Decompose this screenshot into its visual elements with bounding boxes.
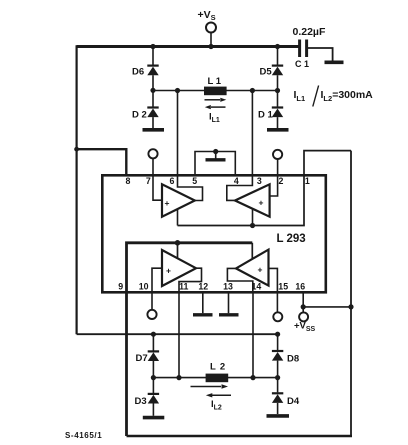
ground (D2) — [143, 128, 165, 132]
diode D7 — [152, 334, 154, 350]
svg-text:D8: D8 — [287, 354, 299, 365]
svg-text:5: 5 — [192, 176, 197, 186]
wire +Vs top rail — [77, 45, 299, 48]
svg-text:L 293: L 293 — [277, 233, 306, 245]
svg-text:IL2=300mA: IL2=300mA — [321, 89, 374, 103]
svg-text:6: 6 — [170, 176, 175, 186]
ground (D3) — [143, 416, 165, 420]
node junction L1row/pin6 wire — [175, 88, 180, 93]
svg-text:9: 9 — [118, 282, 123, 292]
ground (D4) — [267, 414, 290, 418]
wire pin11 to L2 — [178, 291, 180, 378]
node +Vss terminal — [299, 312, 308, 321]
wire pin1 enable to Vss bus — [304, 151, 351, 176]
current arrow I_L2 right — [191, 386, 222, 388]
wire pin16 to +Vss — [302, 291, 304, 312]
current arrow I_L1 left — [211, 106, 226, 108]
svg-text:D7: D7 — [136, 353, 148, 364]
node pin15 input terminal — [276, 291, 278, 312]
wire L2 row — [153, 377, 277, 379]
svg-text:D3: D3 — [135, 396, 147, 407]
svg-text:+VS: +VS — [198, 9, 216, 22]
wire L1 row — [153, 90, 278, 92]
wire bottom Vss bus — [127, 435, 353, 438]
svg-text:+: + — [165, 198, 170, 208]
wire right Vss bus — [350, 151, 352, 436]
node pin10 input terminal — [151, 291, 153, 310]
svg-text:D 1: D 1 — [258, 110, 274, 121]
node junction D5/D1/L1 — [275, 88, 280, 93]
node +Vs terminal — [206, 23, 216, 33]
wire D5 cathode to rail — [277, 47, 279, 65]
svg-text:8: 8 — [126, 176, 131, 186]
op-amp U2 (ch1, pins 2,3) — [270, 175, 278, 196]
wire pins 4,5 ground loop — [195, 152, 235, 177]
node junction D7/D3/L2 — [151, 375, 156, 380]
op-amp U3 (ch3, pins 10,11) — [152, 268, 162, 291]
svg-text:+VSS: +VSS — [294, 321, 316, 334]
svg-text:L 1: L 1 — [208, 76, 222, 87]
svg-text:12: 12 — [198, 282, 208, 292]
wire pin8 supply — [77, 149, 127, 176]
ground (pins 4,5) — [206, 158, 226, 161]
ground (pin13) — [228, 291, 230, 313]
ground (pin12) — [202, 291, 204, 313]
svg-text:1: 1 — [305, 176, 310, 186]
diode D3 — [152, 378, 154, 393]
ground (C1) — [325, 60, 344, 64]
wire L1 right to pin3 — [251, 91, 253, 177]
svg-text:0.22µF: 0.22µF — [293, 26, 326, 38]
svg-text:L 2: L 2 — [210, 362, 226, 373]
inductor L2 — [206, 374, 229, 383]
wire left +Vs bus — [75, 45, 77, 334]
svg-text:11: 11 — [179, 282, 188, 292]
node junction rail/D6 — [150, 44, 155, 49]
ground (D1) — [267, 128, 289, 132]
svg-text:IL1: IL1 — [294, 89, 306, 103]
wire enable EN1 (pin1) — [178, 176, 305, 226]
svg-text:14: 14 — [252, 282, 262, 292]
node pin7 input terminal — [148, 149, 157, 158]
svg-text:4: 4 — [234, 176, 239, 186]
svg-text:D 2: D 2 — [132, 110, 147, 121]
wire C1 to ground — [308, 48, 333, 61]
svg-text:D6: D6 — [132, 67, 144, 78]
capacitor C1 — [298, 40, 301, 58]
svg-text:+: + — [259, 198, 264, 208]
op-amp U4 (ch4, pins 15,14) — [269, 268, 278, 291]
svg-text:IL1: IL1 — [209, 112, 220, 125]
svg-text:10: 10 — [139, 282, 149, 292]
wire pin14 to L2 — [252, 291, 254, 378]
svg-text:7: 7 — [146, 176, 151, 186]
inductor L1 — [204, 87, 227, 96]
IC box L293 — [102, 175, 325, 292]
diode D1 — [277, 91, 279, 107]
current arrow I_L2 left — [212, 394, 231, 396]
svg-text:3: 3 — [257, 176, 262, 186]
node junction D8/D4/L2 — [275, 375, 280, 380]
svg-text:IL2: IL2 — [211, 399, 222, 412]
svg-text:+: + — [258, 265, 263, 275]
svg-text:16: 16 — [295, 282, 305, 292]
diode D8 — [277, 334, 279, 350]
node junction rail/D5 — [275, 44, 280, 49]
diode D4 — [277, 378, 279, 393]
wire enable EN2 (pin9) — [127, 243, 253, 436]
diode D2 — [152, 90, 154, 106]
current arrow I_L1 right — [205, 99, 221, 101]
node junction L1row/pin3 wire — [250, 88, 255, 93]
wire +Vs bus to bottom diodes — [77, 333, 278, 335]
svg-text:D4: D4 — [287, 396, 300, 407]
diode D5 — [272, 64, 283, 66]
wire D6 cathode to rail — [152, 47, 154, 65]
svg-text:S-4165/1: S-4165/1 — [65, 431, 102, 440]
op-amp U1 (ch2, pins 7,6) — [153, 175, 162, 200]
svg-text:D5: D5 — [260, 67, 273, 78]
svg-text:2: 2 — [278, 176, 283, 186]
svg-text:+: + — [166, 266, 171, 276]
svg-text:C 1: C 1 — [295, 59, 309, 69]
wire L1 left to pin6 — [177, 91, 179, 177]
node pin2 input terminal — [273, 150, 282, 159]
svg-text:15: 15 — [278, 282, 288, 292]
diode D6 — [147, 64, 158, 66]
svg-text:13: 13 — [223, 282, 233, 292]
node junction D6/D2/L1 — [150, 88, 155, 93]
